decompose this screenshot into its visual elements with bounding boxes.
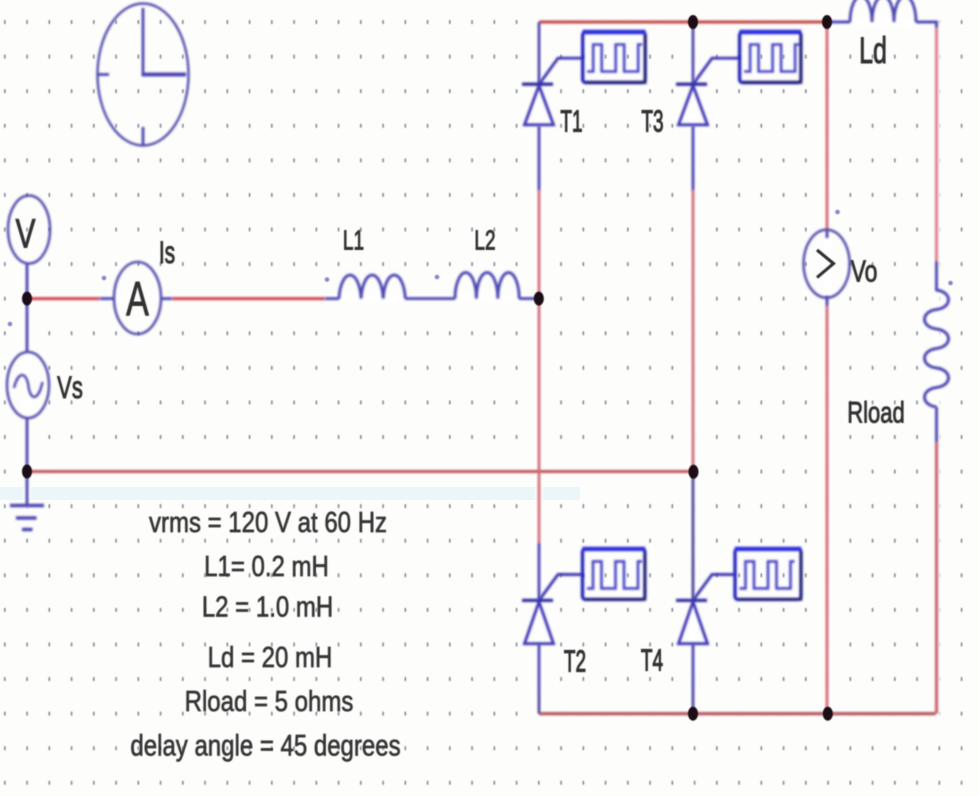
svg-text:Rload = 5 ohms: Rload = 5 ohms (185, 685, 354, 718)
svg-text:T4: T4 (641, 644, 663, 678)
svg-text:L1= 0.2 mH: L1= 0.2 mH (204, 550, 329, 583)
svg-text:A: A (126, 271, 149, 325)
svg-text:Ld = 20 mH: Ld = 20 mH (208, 641, 333, 674)
svg-text:Is: Is (159, 235, 175, 270)
svg-text:Rload: Rload (847, 395, 904, 429)
svg-text:vrms = 120 V at 60 Hz: vrms = 120 V at 60 Hz (149, 506, 387, 539)
svg-text:T3: T3 (641, 105, 663, 139)
svg-text:T1: T1 (560, 105, 582, 139)
svg-text:Ld: Ld (859, 29, 887, 71)
svg-text:L1: L1 (343, 226, 364, 256)
svg-text:Vo: Vo (851, 254, 878, 288)
svg-text:Vs: Vs (57, 370, 83, 405)
svg-text:L2: L2 (474, 226, 495, 256)
svg-text:delay angle = 45 degrees: delay angle = 45 degrees (130, 729, 400, 762)
svg-text:V: V (15, 211, 35, 257)
svg-text:L2 = 1.0 mH: L2 = 1.0 mH (202, 590, 333, 623)
svg-text:T2: T2 (564, 645, 586, 679)
